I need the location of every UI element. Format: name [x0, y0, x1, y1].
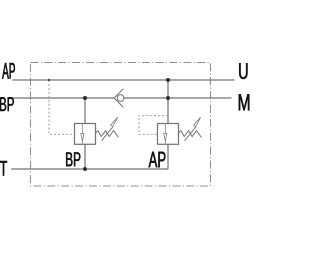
relief valve RV2 body — [158, 124, 179, 145]
wire: branch BP line to valve RV1 — [84, 98, 86, 124]
check valve CV1 — [114, 89, 124, 107]
wire: drain of RV2 to tank line — [167, 144, 169, 169]
relief valve RV2 adjustment arrow — [185, 117, 201, 141]
wire: tank line T — [11, 168, 168, 170]
junction node: AP line to RV2 branch — [166, 78, 170, 82]
junction node: BP line to RV1 branch — [83, 96, 87, 100]
relief valve RV1 spring — [95, 131, 118, 138]
valve RV2 label AP — [149, 152, 166, 167]
wire: AP-U supply line — [12, 79, 234, 81]
port label M — [239, 94, 250, 110]
port label AP — [2, 63, 15, 79]
pilot line of RV1 (from AP line, dashed) — [49, 80, 75, 134]
relief valve RV1 body — [75, 124, 96, 145]
port label T — [0, 161, 7, 176]
junction node: BP-M line crossing RV2 branch — [166, 96, 170, 100]
junction node: pilot tap on AP line — [48, 79, 50, 81]
relief valve RV1 adjustment arrow — [102, 117, 118, 141]
relief valve RV2 flow arrow (offset, normally closed) — [164, 124, 167, 145]
wire: branch AP line to valve RV2 (crosses BP line) — [167, 80, 169, 124]
wire: drain of RV1 to tank line — [84, 144, 86, 169]
pilot line of RV2 (from its inlet branch, dashed) — [139, 116, 168, 135]
wire: BP-M line left segment — [12, 97, 114, 99]
junction node: RV1 drain on tank line — [83, 167, 87, 171]
port label BP — [0, 97, 14, 111]
relief valve RV1 flow arrow (offset, normally closed) — [81, 124, 84, 145]
wire: BP-M line right segment — [124, 97, 232, 99]
port label U — [239, 63, 247, 79]
relief valve RV2 spring — [178, 131, 201, 138]
enclosure border (dash-dot) — [31, 63, 211, 187]
valve RV1 label BP — [66, 152, 80, 166]
